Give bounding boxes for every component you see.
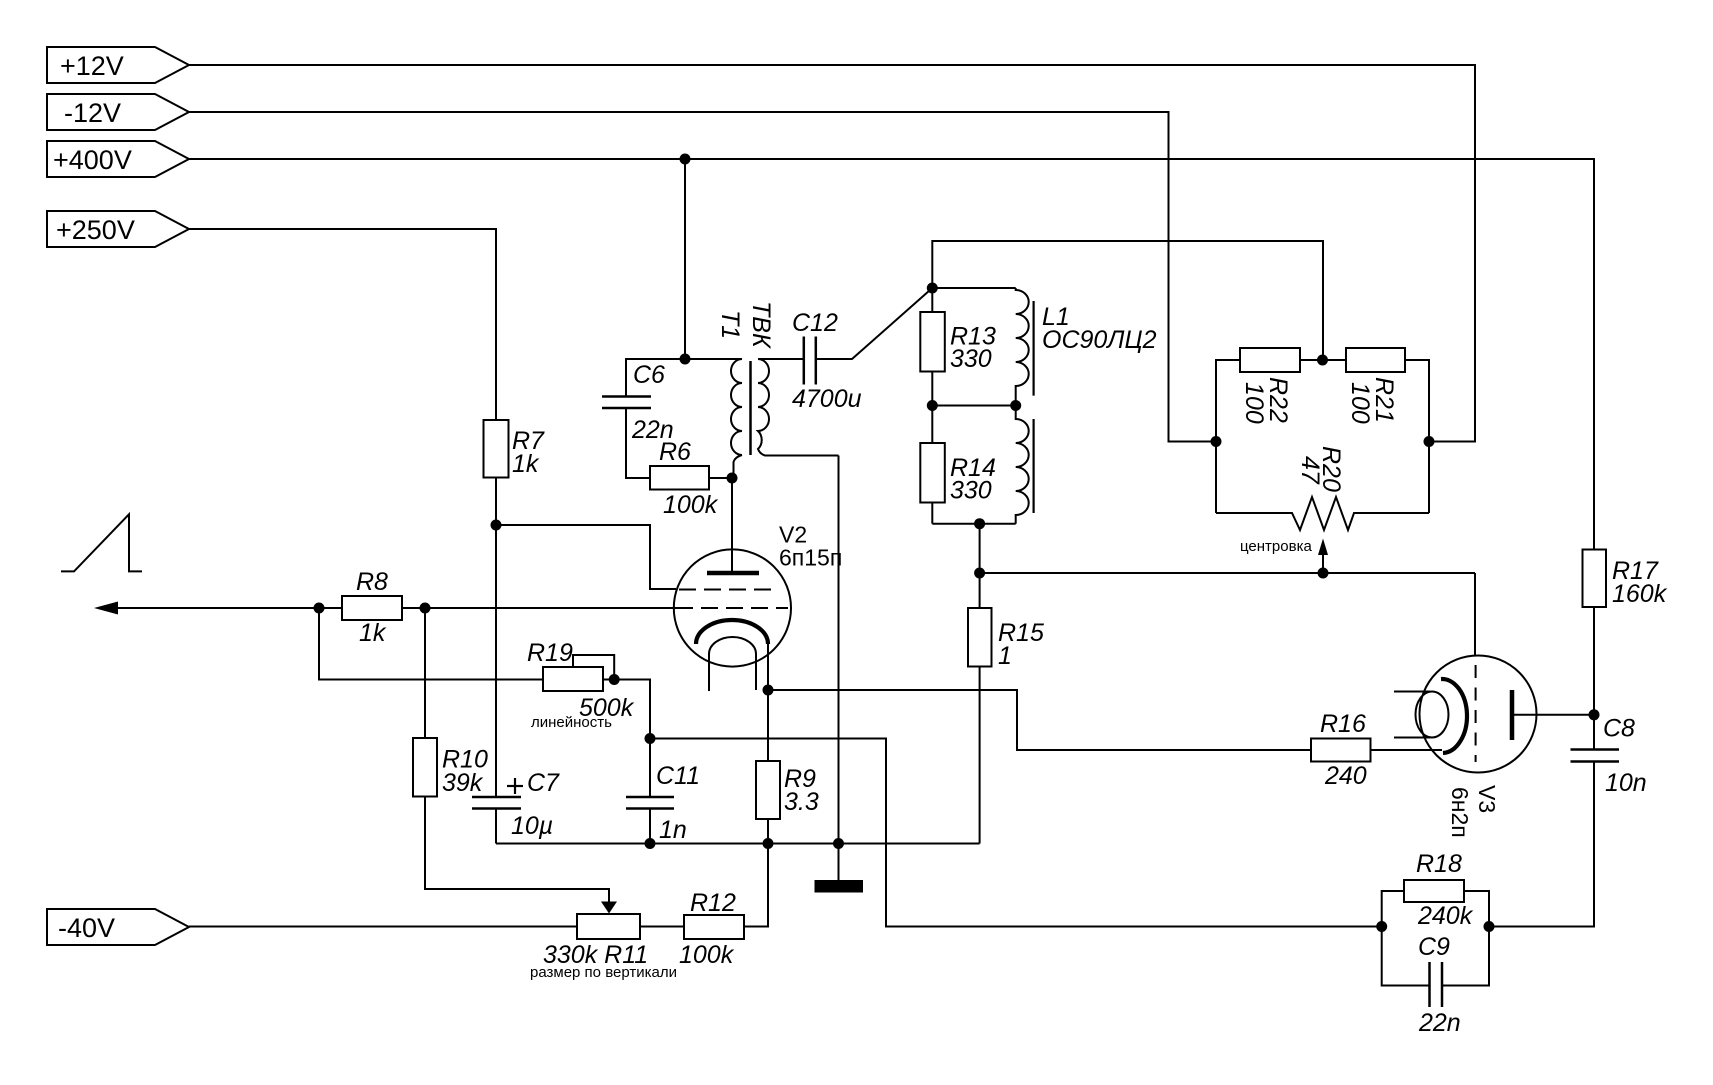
svg-text:C7: C7 [527,769,560,797]
wire C6 bottom to R6 [626,408,650,478]
node junction R20 right [1424,436,1435,447]
svg-text:размер по вертикали: размер по вертикали [530,964,677,981]
tube V2 screen grid dashed [679,589,778,591]
wire C7 bottom to bus [495,809,497,844]
tube V2 cathode arc [696,620,768,644]
wire C6 loop [626,359,685,397]
capacitor C11 [626,762,700,844]
node junction R18 right [1484,921,1495,932]
wire to R18 over and down [650,739,1382,927]
tube V2 heater arc [709,637,756,654]
svg-text:C9: C9 [1418,933,1450,961]
wire centering line [980,572,1475,574]
wire +400V branch down to T1 node [684,159,686,359]
node junction R9 bus [763,838,774,849]
resistor R22 [1216,348,1346,513]
tube V3 envelope [1420,656,1537,773]
svg-text:6п15п: 6п15п [779,545,842,571]
capacitor C6 [602,361,674,444]
svg-text:240: 240 [1324,762,1367,790]
svg-text:C12: C12 [792,309,838,337]
svg-text:C8: C8 [1603,715,1635,743]
wire T1 secondary top to C12 [758,358,804,360]
wire R10 bottom to R11 wiper [425,797,609,903]
svg-text:6н2п: 6н2п [1447,787,1473,838]
svg-text:-40V: -40V [58,913,115,943]
resistor R17 [1583,550,1668,715]
svg-text:V3: V3 [1474,785,1500,813]
wire ground bus [496,843,980,845]
svg-text:R6: R6 [659,438,691,466]
resistor R6 [650,438,719,519]
tube V2 envelope [674,549,791,666]
svg-text:линейность: линейность [531,714,612,731]
node junction V2 cathode [763,685,774,696]
svg-text:22n: 22n [1418,1009,1461,1037]
node wiper arrow R20 centering [1318,539,1328,573]
resistor R20 zigzag [1216,446,1429,530]
svg-text:100: 100 [1240,382,1268,424]
wire R14 bottom node [932,523,1015,525]
capacitor C7 [472,769,560,840]
node junction C11 bus [645,838,656,849]
svg-text:R19: R19 [527,639,573,667]
resistor R14 [920,406,996,524]
svg-text:+250V: +250V [56,215,135,245]
svg-text:центровка: центровка [1240,538,1312,555]
resistor R10 [413,738,488,797]
resistor R19 [527,639,635,731]
wire V2 cathode lead [767,644,769,690]
node junction R8 left [314,603,325,614]
node junction R13 bottom [927,400,938,411]
svg-text:10n: 10n [1605,769,1647,797]
resistor R13 [920,288,996,406]
resistor R9 [756,761,819,844]
wire R7 bottom to C7 [495,478,497,798]
ground symbol [815,844,864,893]
node junction R7/screen [491,520,502,531]
tube V3 grid dashed [1475,665,1477,762]
node junction centering left [974,568,985,579]
wire V2 anode lead [731,478,733,571]
tube V3 cathode arc [1441,679,1467,753]
node junction R18 left [1376,921,1387,932]
wire -40V to R11 [189,926,577,928]
svg-text:R8: R8 [356,568,388,596]
wire R8 input arrow [94,602,342,615]
wire R8 right down to R10 [424,608,426,738]
svg-text:4700u: 4700u [792,385,862,413]
wire R8 right to V2 grid [425,607,676,609]
svg-text:C11: C11 [656,762,700,790]
resistor R7 [484,420,546,478]
svg-text:3.3: 3.3 [784,788,819,816]
node junction ground bus [833,838,844,849]
capacitor C8 [1571,715,1647,798]
transformer T1 primary [685,359,742,478]
svg-text:1k: 1k [359,619,387,647]
wire centering down to V3 grid [1474,573,1476,656]
svg-text:ТВК: ТВК [747,301,775,349]
svg-text:1k: 1k [512,450,540,478]
node junction R6/T1/V2 anode [727,473,738,484]
node +12V flag [47,47,189,83]
tube V3 heater ellipse [1416,692,1449,738]
svg-text:1n: 1n [659,816,687,844]
wire +250V to R7 [189,229,496,420]
svg-text:330: 330 [950,345,992,373]
resistor R21 [1346,348,1429,513]
svg-text:R12: R12 [690,889,736,917]
node junction +400V branch [680,154,691,165]
transformer T1 secondary [758,359,839,456]
wire V3 plate to R17/C8 node [1514,714,1594,716]
wire R13/R14 node [932,405,1015,407]
wire R19 to C11 [614,680,650,798]
wire R13 node up and over to R21/R22 node [932,241,1323,360]
node junction centering wiper [1318,568,1329,579]
svg-text:C6: C6 [633,361,665,389]
svg-text:+400V: +400V [53,145,132,175]
wire R8 left down to R19 [319,608,543,680]
tube V2 anode bar [707,571,759,576]
node junction C11 top / R18 feed [645,733,656,744]
wire C8 down to R18 node [1489,762,1594,927]
svg-text:240k: 240k [1417,902,1474,930]
svg-text:47: 47 [1296,456,1324,485]
wire cathode down to R9 [767,690,769,761]
capacitor C12 [792,309,862,413]
node junction R13 top [927,283,938,294]
node junction V3 plate [1589,709,1600,720]
node junction R15 top feed [974,518,985,529]
tube V2 control grid dashed [676,607,788,609]
node junction L1 mid [1010,400,1021,411]
resistor R12 [679,889,744,969]
resistor R11 potentiometer [530,914,684,981]
wire screen grid feed [496,525,676,589]
resistor R18 [1382,850,1489,930]
svg-text:R18: R18 [1416,850,1462,878]
wire T1 secondary bottom down [838,456,840,844]
node sawtooth symbol [61,514,142,571]
wire cathode to R16 [768,690,1311,750]
svg-text:1: 1 [998,642,1012,670]
node +400V flag [47,141,189,177]
wire -12V rail [189,112,1216,442]
svg-text:ОС90ЛЦ2: ОС90ЛЦ2 [1042,326,1157,354]
svg-text:160k: 160k [1612,580,1668,608]
node +250V flag [47,211,189,247]
node junction R21/R22 [1317,355,1328,366]
node junction R19 right [609,674,620,685]
wire C12 to R13 node diagonal [816,288,933,359]
svg-text:10µ: 10µ [511,812,553,840]
wire +12V rail [189,65,1475,442]
node junction C6/T1 top [680,354,691,365]
node junction R8 right [420,603,431,614]
resistor R15 [968,608,1044,844]
transformer T1 core [749,361,752,455]
resistor R16 [1311,710,1442,790]
wire R6 right to anode node [709,477,732,479]
tube V3 plate bar [1510,690,1515,740]
wire down to centering line [979,524,981,608]
svg-text:-12V: -12V [64,98,121,128]
svg-text:100: 100 [1346,382,1374,424]
node R11 wiper arrow [601,902,617,914]
svg-text:Т1: Т1 [716,310,744,339]
wire V3 heater stubs [1394,691,1430,693]
inductor L1 top winding [932,288,1033,406]
svg-text:100k: 100k [663,491,719,519]
wire +400V rail [189,159,1594,550]
svg-text:330: 330 [950,477,992,505]
node junction R20 left [1211,436,1222,447]
resistor R8 [342,568,425,647]
capacitor C9 [1382,927,1489,1038]
wire V2 heater leads [708,654,710,691]
node -12V flag [47,94,189,130]
node -40V flag [47,909,189,945]
svg-text:100k: 100k [679,941,735,969]
inductor L1 bottom winding [1016,406,1034,524]
wire R9 bottom to R12 [744,844,768,927]
svg-text:R16: R16 [1320,710,1366,738]
svg-text:39k: 39k [442,769,484,797]
svg-text:+12V: +12V [60,51,124,81]
